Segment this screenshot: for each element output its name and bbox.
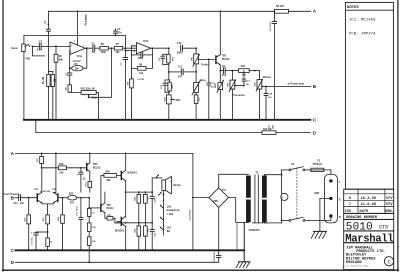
svg-text:R32: R32 [172, 84, 174, 89]
resistor R6 [100, 43, 109, 54]
svg-text:R18: R18 [59, 163, 64, 166]
input jack JK [11, 44, 29, 53]
svg-text:R24: R24 [57, 216, 60, 221]
capacitor C18 [77, 168, 86, 192]
resistor R5 [275, 4, 289, 13]
resistor R17 [37, 153, 43, 167]
wire R15 to D [276, 132, 310, 134]
svg-text:W02: W02 [222, 189, 227, 191]
potentiometer VR1 Gain [80, 87, 98, 99]
wire supply rail top [48, 10, 276, 12]
capacitor C3 [65, 72, 72, 76]
wire tone node [168, 71, 180, 73]
resistor R15 feedback [262, 129, 276, 134]
wire C21 to pair [21, 197, 37, 199]
wire R18 to TR2 base [66, 167, 86, 169]
title block revision table [344, 189, 394, 214]
svg-text:C24 4700u: C24 4700u [213, 251, 216, 262]
svg-text:C13: C13 [246, 80, 251, 82]
resistor R24 [57, 197, 64, 250]
capacitor C12 [177, 42, 183, 54]
resistor R10 slope [163, 54, 175, 72]
svg-text:C1: C1 [44, 20, 47, 24]
label to power amp [288, 83, 305, 86]
svg-text:R11: R11 [241, 65, 246, 68]
resistor R32 mid [165, 80, 174, 95]
title block model 5010 [344, 219, 394, 233]
svg-text:11-8-88: 11-8-88 [361, 203, 377, 207]
svg-text:CFV: CFV [386, 203, 393, 207]
wire to node A [289, 10, 311, 12]
svg-text:R12: R12 [198, 96, 200, 101]
potentiometer VR4a [214, 71, 223, 120]
svg-text:10k: 10k [139, 72, 144, 75]
resistor R20 driver [101, 171, 121, 204]
svg-text:C16 10u: C16 10u [31, 236, 33, 244]
svg-text:5010: 5010 [346, 221, 373, 233]
svg-text:IC1a: IC1a [77, 55, 83, 58]
wire feedback loop IC1a [69, 48, 87, 69]
resistor R11 [239, 65, 250, 76]
capacitor C23 main filter [190, 209, 192, 220]
resistor R25 feedback [68, 192, 77, 204]
op-amp IC1a [70, 41, 85, 59]
svg-text:1k: 1k [51, 240, 53, 243]
svg-text:C: C [313, 117, 317, 122]
wire IC1b output [151, 47, 170, 49]
ground bus preamp net C [24, 117, 317, 122]
capacitor C7 [121, 58, 127, 120]
label C22 100n [269, 124, 275, 129]
resistor R1b [48, 72, 56, 120]
resistor R34 [144, 223, 150, 251]
svg-text:39k: 39k [75, 67, 80, 70]
capacitor C6 [114, 28, 123, 36]
svg-text:Presence: Presence [233, 93, 245, 97]
wire bridge positive [193, 197, 209, 199]
resistor R7 [114, 43, 122, 54]
svg-text:R21: R21 [25, 217, 27, 222]
wire R6 to R7 [108, 47, 114, 49]
wire bias row [115, 221, 121, 222]
svg-text:C4 2n2: C4 2n2 [73, 60, 82, 63]
transistor TR7 output [121, 170, 137, 181]
capacitor C16 [31, 230, 48, 250]
wire TR8 base [88, 207, 101, 209]
wire screen down [236, 223, 238, 250]
wire speaker return [163, 190, 165, 235]
svg-text:A: A [11, 151, 15, 156]
svg-text:/ JK1: / JK1 [167, 213, 173, 216]
ferrite bead FB1 [26, 46, 45, 60]
wire TR1 emitter [219, 65, 221, 72]
svg-text:D: D [11, 260, 15, 265]
svg-text:C: C [387, 259, 390, 265]
wire R25 to chain [77, 197, 90, 199]
fuse F1 [305, 159, 331, 180]
svg-text:220: 220 [148, 196, 150, 200]
svg-text:PCB: JMP27A: PCB: JMP27A [349, 32, 376, 36]
wire IC1a inverting input [69, 51, 71, 73]
capacitor C15 supply [270, 11, 276, 120]
svg-text:BC212: BC212 [93, 166, 101, 169]
node B preamp output [313, 84, 317, 89]
ground earth mains [311, 231, 326, 238]
svg-text:T1: T1 [255, 171, 259, 175]
svg-text:R30: R30 [135, 196, 137, 201]
svg-text:10n: 10n [268, 97, 272, 99]
wire TR2 emitter [89, 153, 91, 163]
svg-text:MJ2501: MJ2501 [115, 229, 125, 233]
svg-text:47n: 47n [178, 76, 183, 79]
wire primary bottom [264, 222, 281, 223]
svg-text:NOTES: NOTES [347, 6, 359, 10]
page border right [397, 0, 399, 271]
svg-text:Master: Master [263, 75, 271, 79]
wire TR2 collector [89, 172, 91, 182]
svg-text:1u: 1u [92, 51, 95, 54]
svg-text:-: - [71, 50, 72, 54]
capacitor C24 reservoir [213, 250, 221, 262]
svg-text:R15 10k: R15 10k [263, 129, 272, 131]
wire TR8 collector [104, 192, 106, 203]
svg-text:7: 7 [349, 203, 351, 207]
svg-text:Headphone: Headphone [166, 209, 180, 212]
svg-text:R19: R19 [86, 182, 88, 187]
svg-text:STD: STD [379, 225, 389, 231]
svg-text:C21: C21 [13, 203, 18, 205]
svg-text:C3: C3 [65, 72, 67, 76]
jack JK2 speaker ext [167, 226, 172, 233]
potentiometer VR4 Bass [192, 78, 207, 95]
wire vref rail [24, 35, 126, 37]
resistor R2 [54, 46, 63, 119]
capacitor C13a [207, 59, 216, 119]
svg-text:C19: C19 [155, 198, 157, 203]
wire bridge negative [218, 207, 220, 251]
wire primary link [281, 170, 283, 223]
wire input ground drop [23, 36, 25, 120]
potentiometer VR2 Treble [192, 54, 210, 67]
svg-text:4u7: 4u7 [83, 176, 86, 180]
resistor R1a [42, 72, 50, 120]
wire bias to IC1b [125, 36, 137, 58]
svg-text:Marshall: Marshall [345, 233, 393, 245]
wire presence wiper [234, 85, 244, 87]
resistor R8 [127, 68, 145, 119]
svg-text:1k: 1k [92, 212, 95, 214]
switch S1 [282, 162, 305, 222]
potentiometer VR3 Middle [165, 95, 181, 120]
svg-text:R8: R8 [127, 81, 129, 85]
svg-text:TXMA03T: TXMA03T [248, 229, 260, 232]
wire C11 to bass pot [183, 71, 197, 73]
capacitor C17 [77, 198, 83, 251]
transistor pair TR4 TR5 [34, 188, 58, 215]
svg-text:R10: R10 [172, 56, 174, 61]
svg-text:R7: R7 [116, 43, 120, 46]
notes box [345, 2, 393, 189]
ground earth chassis [236, 262, 250, 268]
wire bridge AC bottom [229, 198, 249, 223]
capacitor C4 feedback [73, 60, 82, 63]
svg-text:10k: 10k [148, 228, 150, 232]
transistor TR2 [87, 163, 101, 172]
svg-text:100p: 100p [138, 57, 144, 60]
svg-text:68k: 68k [59, 59, 64, 62]
wire TR8 emitter [105, 213, 107, 218]
svg-text:A: A [313, 9, 317, 14]
svg-text:15k: 15k [92, 227, 96, 229]
wire lower rail [115, 222, 153, 224]
svg-text:S1: S1 [291, 162, 295, 166]
resistor R4 [64, 75, 81, 92]
svg-text:130k: 130k [100, 51, 106, 54]
wire treble bottom to bass [195, 64, 197, 83]
svg-text:R6: R6 [101, 43, 105, 46]
svg-text:47k: 47k [70, 202, 75, 205]
svg-text:VR6: VR6 [254, 82, 256, 87]
svg-text:JK2: JK2 [167, 206, 172, 209]
svg-text:T500mA: T500mA [312, 163, 322, 166]
capacitor C25 mid [161, 72, 170, 92]
wire power rail [15, 153, 193, 155]
resistor R23 [46, 238, 53, 250]
svg-text:TR8: TR8 [106, 205, 111, 207]
resistor R30 zobel [135, 192, 141, 223]
wire master wiper to B [262, 86, 311, 88]
svg-text:Treble: Treble [201, 63, 209, 67]
svg-text:From Preamp: From Preamp [4, 193, 20, 196]
svg-text:1: 1 [83, 46, 85, 48]
capacitor C19 zobel [150, 192, 156, 223]
svg-text:C6: C6 [117, 28, 121, 31]
node presence [232, 70, 234, 72]
resistor R28 [87, 216, 96, 231]
resistor R19 [86, 181, 92, 192]
wire neutral [305, 218, 331, 221]
svg-text:to Power amp: to Power amp [288, 83, 305, 86]
wire feedback net D [36, 120, 262, 133]
svg-text:to TR1: to TR1 [138, 78, 146, 81]
wire treble wiper to TR1 base [198, 59, 216, 61]
copyright symbol [384, 257, 393, 266]
svg-text:R1 1M: R1 1M [42, 77, 45, 84]
transistor TR9 output [115, 216, 126, 250]
svg-text:2k2: 2k2 [59, 172, 64, 175]
wire R7 to IC1b [123, 47, 137, 49]
wire pair collectors [42, 168, 56, 193]
svg-text:BC184: BC184 [222, 58, 230, 61]
capacitor C5 [91, 43, 95, 54]
capacitor C11 bass [178, 66, 184, 79]
svg-text:VR1 22k LIN: VR1 22k LIN [80, 87, 94, 90]
svg-text:8Ω 4w: 8Ω 4w [173, 184, 180, 187]
transformer T1 [246, 171, 268, 232]
wire input to C2 [32, 45, 39, 47]
page border left [2, 0, 4, 271]
ground bus power net C [11, 248, 245, 253]
wire R17 to R18 [41, 167, 59, 169]
svg-text:C11: C11 [178, 66, 183, 69]
potentiometer VR6 Master [254, 71, 271, 120]
capacitor C9 [220, 65, 232, 77]
mains connector MS1 [314, 174, 340, 223]
svg-text:L: L [339, 180, 341, 184]
svg-text:VR2: VR2 [192, 56, 194, 61]
svg-text:C14: C14 [268, 92, 273, 95]
svg-text:C7: C7 [121, 62, 123, 66]
jack contact speaker [156, 175, 159, 178]
wire main supply drop [192, 153, 194, 251]
wire chassis down [243, 223, 245, 262]
wire tail supply [55, 153, 57, 192]
svg-text:BC212: BC212 [106, 208, 114, 210]
svg-text:.22u: .22u [19, 203, 24, 205]
svg-text:Bass: Bass [200, 78, 207, 82]
svg-text:C25: C25 [161, 84, 163, 89]
svg-text:IC1b: IC1b [143, 40, 149, 43]
wire IC1a output [85, 47, 92, 49]
transistor TR8 driver [101, 203, 114, 213]
resistor R27 [107, 215, 115, 223]
wire output node [126, 191, 153, 193]
wire C5 to R3a [95, 47, 100, 49]
wire C2 to IC1a [41, 46, 70, 48]
svg-text:F1: F1 [317, 159, 321, 163]
svg-text:R17: R17 [37, 157, 39, 162]
capacitor C13 [242, 71, 250, 86]
svg-text:R20: R20 [105, 171, 110, 174]
capacitor C20b [150, 223, 156, 251]
svg-text:2u2: 2u2 [222, 74, 227, 77]
resistor R33 [135, 223, 141, 251]
wire R11 to master [249, 70, 259, 72]
svg-text:22n: 22n [246, 84, 250, 86]
resistor R18 [58, 163, 66, 175]
wire TR5 base to R25 [58, 197, 68, 199]
svg-text:C17 100u: C17 100u [77, 206, 79, 216]
resistor R21 bias [25, 198, 31, 251]
svg-text:100n: 100n [273, 124, 275, 129]
svg-text:5: 5 [134, 51, 136, 53]
wire bridge AC top [219, 174, 249, 188]
svg-text:BR1: BR1 [214, 200, 220, 203]
capacitor C1 on supply divider [44, 11, 51, 46]
svg-text:0.1u: 0.1u [37, 48, 43, 52]
svg-text:C22: C22 [269, 125, 271, 128]
wire input B [15, 197, 19, 199]
svg-text:R2: R2 [59, 55, 63, 58]
svg-text:B: B [313, 84, 317, 89]
node A power rail [11, 151, 15, 156]
svg-text:N: N [339, 215, 341, 219]
title block drawing number [344, 213, 394, 220]
resistor R12 [194, 92, 200, 119]
svg-text:220n: 220n [177, 51, 183, 54]
speaker LS1 [162, 176, 181, 194]
svg-text:Tlx 825790 Fax 0908: Tlx 825790 Fax 0908 [346, 264, 370, 267]
svg-text:R9: R9 [139, 63, 143, 66]
jack JK1 headphone [160, 205, 180, 230]
svg-text:4k7: 4k7 [64, 86, 67, 90]
svg-text:IC1: MC1458: IC1: MC1458 [349, 18, 376, 22]
svg-text:C2: C2 [39, 39, 43, 43]
resistor R22 tail [43, 215, 49, 238]
svg-text:C: C [11, 248, 15, 253]
resistor R3 feedback [72, 63, 83, 71]
jack contact return [159, 192, 162, 195]
svg-text:TR4: TR4 [34, 188, 39, 191]
svg-text:+: + [77, 172, 79, 176]
svg-text:E: E [339, 197, 341, 201]
svg-text:R22: R22 [43, 217, 45, 222]
svg-text:Mid: Mid [176, 98, 181, 102]
wire TR1 collector [219, 11, 221, 54]
wire feedback loop IC1b [132, 46, 153, 69]
svg-text:FB1: FB1 [26, 56, 31, 60]
svg-text:C15 100u: C15 100u [270, 21, 272, 31]
resistor R29 [87, 231, 96, 263]
wire IC1a V+ [78, 11, 88, 45]
page border bottom [2, 269, 398, 271]
svg-text:+: + [31, 230, 33, 234]
svg-text:Input: Input [11, 46, 17, 50]
capacitor C10 feedback [132, 52, 153, 60]
title block address [344, 243, 394, 270]
svg-text:TR5: TR5 [52, 189, 57, 191]
svg-text:10k: 10k [92, 241, 96, 243]
capacitor C8 slope [159, 48, 169, 64]
op-amp IC1b [134, 40, 151, 54]
wire feedback bus net D [11, 260, 219, 265]
svg-text:9v supply: 9v supply [84, 14, 87, 26]
title block logo Marshall [344, 231, 394, 245]
bridge rectifier BR1 [209, 188, 229, 208]
capacitor C14 [264, 86, 273, 119]
svg-text:10k: 10k [115, 51, 120, 54]
svg-text:8Ω: 8Ω [167, 230, 170, 233]
node B power input [4, 193, 20, 200]
svg-text:C23 1000u: C23 1000u [190, 209, 192, 220]
wire treble wiper node [195, 47, 197, 49]
wire VR1 right to ground [96, 92, 98, 119]
svg-text:C12: C12 [177, 42, 182, 45]
wire speaker feed [152, 178, 162, 192]
svg-text:MJ3001: MJ3001 [127, 170, 137, 174]
resistor R31 zobel [144, 192, 150, 223]
svg-text:47n: 47n [117, 32, 122, 35]
capacitor C21 input [13, 195, 24, 205]
node input [32, 46, 34, 48]
svg-text:VR5: VR5 [227, 82, 229, 87]
svg-text:R33: R33 [135, 228, 137, 233]
resistor R9 feedback [137, 63, 146, 74]
wire primary top [264, 174, 282, 176]
svg-text:39k: 39k [106, 179, 111, 182]
node A preamp supply [313, 9, 317, 14]
svg-text:MS1: MS1 [314, 192, 320, 195]
wire output devices [125, 153, 127, 216]
wire to R11 [232, 70, 238, 72]
svg-text:16-3-90: 16-3-90 [361, 197, 377, 201]
transistor TR1 [216, 55, 230, 65]
svg-text:R25: R25 [69, 192, 74, 195]
wire VR1 wiper tap [89, 47, 113, 97]
lamp neon [281, 193, 288, 200]
potentiometer VR5 Presence [227, 71, 245, 120]
wire treble top [183, 48, 197, 54]
